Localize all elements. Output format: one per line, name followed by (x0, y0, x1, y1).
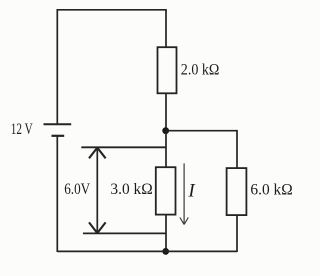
svg-text:6.0 kΩ: 6.0 kΩ (250, 181, 292, 198)
wire: left rail upper segment (top wire to battery +) (56, 9, 58, 124)
wire: top horizontal from left rail to middle branch (57, 9, 167, 11)
node A junction dot (162, 127, 169, 134)
resistor R3 6.0k box (227, 168, 247, 215)
wire: middle branch from R2 down to node B (165, 215, 167, 252)
svg-text:12 V: 12 V (11, 121, 33, 138)
wire: middle branch from R1 down to node A (165, 93, 167, 131)
voltage annotation up arrowhead (89, 148, 106, 159)
svg-text:2.0 kΩ: 2.0 kΩ (181, 62, 220, 79)
resistor R2 3.0k box (156, 167, 176, 214)
resistor R1 2.0k box (158, 47, 177, 93)
wire: right branch from top down to resistor R3 (236, 130, 238, 168)
wire: horizontal from node A to right branch (166, 130, 237, 132)
voltage annotation top bar (81, 146, 166, 148)
battery B1 12V: long positive plate (44, 123, 72, 125)
voltage annotation bottom bar (83, 232, 166, 234)
wire: right branch from R3 down to bottom wire (236, 215, 238, 252)
current arrow I shaft (183, 163, 185, 223)
wire: left rail lower segment (battery - to bottom wire) (56, 136, 58, 252)
wire: bottom horizontal from left rail to right branch (57, 250, 237, 252)
wire: middle branch from node A down to resistor R2 (165, 131, 167, 167)
node B junction dot (162, 248, 169, 255)
current arrow I head (180, 218, 188, 225)
battery B1 12V: short negative plate (52, 135, 65, 137)
wire: middle branch from top wire down to resistor R1 (165, 10, 167, 47)
svg-text:3.0 kΩ: 3.0 kΩ (110, 181, 152, 198)
svg-text:6.0V: 6.0V (64, 181, 91, 198)
voltage annotation double arrow shaft (96, 148, 98, 233)
voltage annotation down arrowhead (89, 222, 106, 233)
